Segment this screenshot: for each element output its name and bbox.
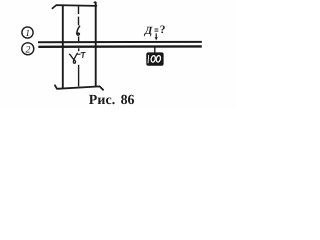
svg-text:86: 86 xyxy=(121,93,135,108)
svg-text:?: ? xyxy=(160,24,166,36)
svg-text:Д: Д xyxy=(144,25,153,37)
svg-text:Рис.: Рис. xyxy=(89,93,116,108)
svg-text:1: 1 xyxy=(25,29,30,39)
svg-text:2: 2 xyxy=(25,44,30,55)
